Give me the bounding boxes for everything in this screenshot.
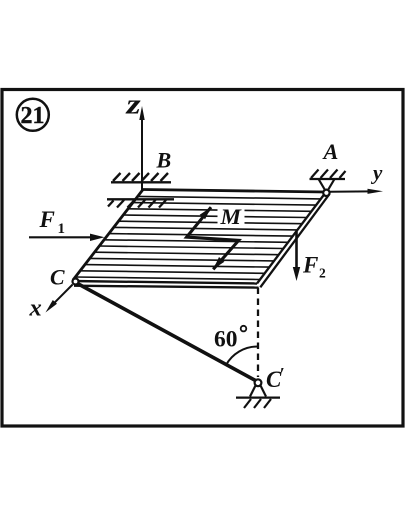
- 60 degree arc: [226, 347, 258, 366]
- pin link at A: [319, 179, 335, 190]
- svg-text:A: A: [322, 139, 339, 164]
- problem number badge 21: [17, 99, 49, 131]
- plate right edge (near, double): [257, 192, 326, 284]
- hinge circle at A: [323, 190, 329, 196]
- force F1 arrow: [29, 234, 105, 241]
- svg-text:21: 21: [21, 103, 45, 129]
- plate top edge: [143, 190, 326, 193]
- support hatching at B (lower, on plate): [107, 199, 174, 207]
- svg-text:M: M: [219, 204, 242, 229]
- x axis: [46, 285, 73, 313]
- plate left edge: [73, 190, 143, 281]
- hinge circle at C: [73, 279, 79, 285]
- plate top face hatch lines: [75, 196, 321, 279]
- rod C-C': [78, 284, 256, 381]
- moment M couple (zigzag double arrow): [187, 207, 239, 269]
- y axis: [330, 189, 383, 194]
- svg-text:60: 60: [214, 327, 238, 353]
- support hatching at B (upper wall): [111, 173, 171, 182]
- svg-text:x: x: [29, 295, 42, 322]
- plate bottom edge (near, double): [72, 281, 257, 284]
- hinge circle at C': [255, 379, 262, 386]
- dashed vertical line D to C': [257, 288, 259, 378]
- svg-text:C: C: [50, 265, 65, 289]
- svg-text:2: 2: [319, 266, 326, 281]
- plate slab (white body): [72, 190, 330, 288]
- pin support at C': [236, 386, 280, 409]
- svg-text:1: 1: [58, 221, 66, 237]
- label M (white backing): [218, 207, 245, 226]
- support hatching at A: [310, 170, 346, 180]
- svg-text:′: ′: [280, 364, 285, 384]
- svg-text:z: z: [125, 89, 141, 120]
- svg-text:B: B: [156, 148, 172, 173]
- svg-text:F: F: [39, 207, 55, 232]
- border frame: [2, 90, 403, 427]
- force F2 arrow: [293, 232, 300, 282]
- z axis: [139, 106, 144, 196]
- svg-text:F: F: [302, 253, 318, 278]
